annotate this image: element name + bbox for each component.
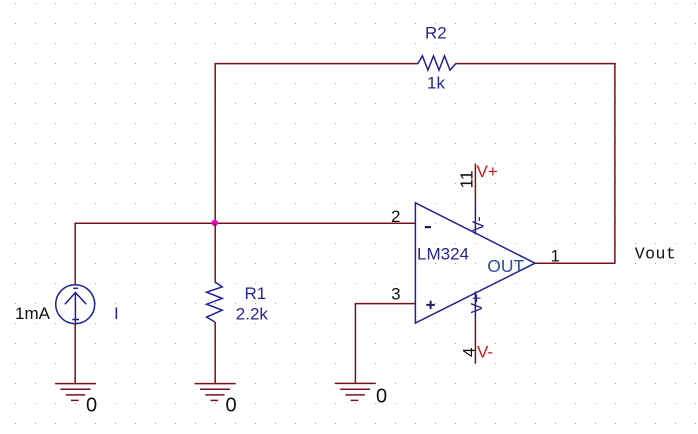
svg-text:R2: R2 xyxy=(425,23,447,42)
svg-text:0: 0 xyxy=(376,385,387,407)
resistor R1 body (zigzag) xyxy=(207,282,223,322)
svg-text:11: 11 xyxy=(457,170,477,188)
svg-text:V-: V- xyxy=(477,342,493,361)
current source arrow head xyxy=(65,293,86,305)
op-amp V- pin stub (top, blue) xyxy=(474,203,476,235)
current source I symbol circle xyxy=(56,285,95,324)
ground symbol 0 (under R1) xyxy=(195,384,236,401)
wire: R1 top lead xyxy=(214,223,216,282)
svg-text:4: 4 xyxy=(460,348,479,357)
wire: V- supply stub (bottom) xyxy=(474,318,476,364)
svg-text:V+: V+ xyxy=(477,162,498,181)
svg-text:V+: V+ xyxy=(469,293,486,313)
wire: current source bottom lead xyxy=(74,324,76,384)
current source arrow shaft xyxy=(74,293,76,324)
wire: top feedback net, left segment to R2 xyxy=(215,64,418,224)
svg-text:I: I xyxy=(114,304,119,323)
wire: non-inverting input net xyxy=(355,304,415,384)
wire: V+ supply stub (top) xyxy=(474,164,476,203)
svg-text:LM324: LM324 xyxy=(417,244,469,263)
svg-text:1k: 1k xyxy=(427,74,445,93)
svg-text:2: 2 xyxy=(391,207,400,226)
svg-text:Vout: Vout xyxy=(635,244,676,263)
wire: R1 bottom lead xyxy=(214,322,216,384)
ground symbol 0 (under current source) xyxy=(55,384,96,401)
wire: top feedback net, right segment from R2 down to output xyxy=(456,64,615,264)
junction node dot xyxy=(212,220,218,226)
ground symbol 0 (at pin 3) xyxy=(335,383,376,400)
svg-text:OUT: OUT xyxy=(487,256,524,276)
svg-text:V-: V- xyxy=(471,216,488,231)
resistor R2 body (zigzag) xyxy=(418,56,456,70)
current source plus mark xyxy=(72,319,79,321)
op-amp inverting input minus mark xyxy=(425,226,431,228)
svg-text:0: 0 xyxy=(86,395,97,417)
svg-text:3: 3 xyxy=(391,285,400,304)
wire: output pin 1 to right vertical xyxy=(535,262,615,264)
svg-text:R1: R1 xyxy=(245,284,267,303)
op-amp U1 LM324 triangle xyxy=(415,203,535,323)
svg-text:2.2k: 2.2k xyxy=(236,304,269,323)
wire: current source top lead xyxy=(74,223,76,285)
op-amp V+ pin stub (bottom, blue) xyxy=(474,292,476,319)
svg-text:1mA: 1mA xyxy=(15,304,51,323)
svg-text:1: 1 xyxy=(551,246,560,265)
op-amp non-inverting input plus mark xyxy=(426,301,435,309)
current source minus mark xyxy=(73,287,78,289)
svg-text:0: 0 xyxy=(226,395,237,417)
wire: inverting input net (horizontal) xyxy=(74,222,415,224)
